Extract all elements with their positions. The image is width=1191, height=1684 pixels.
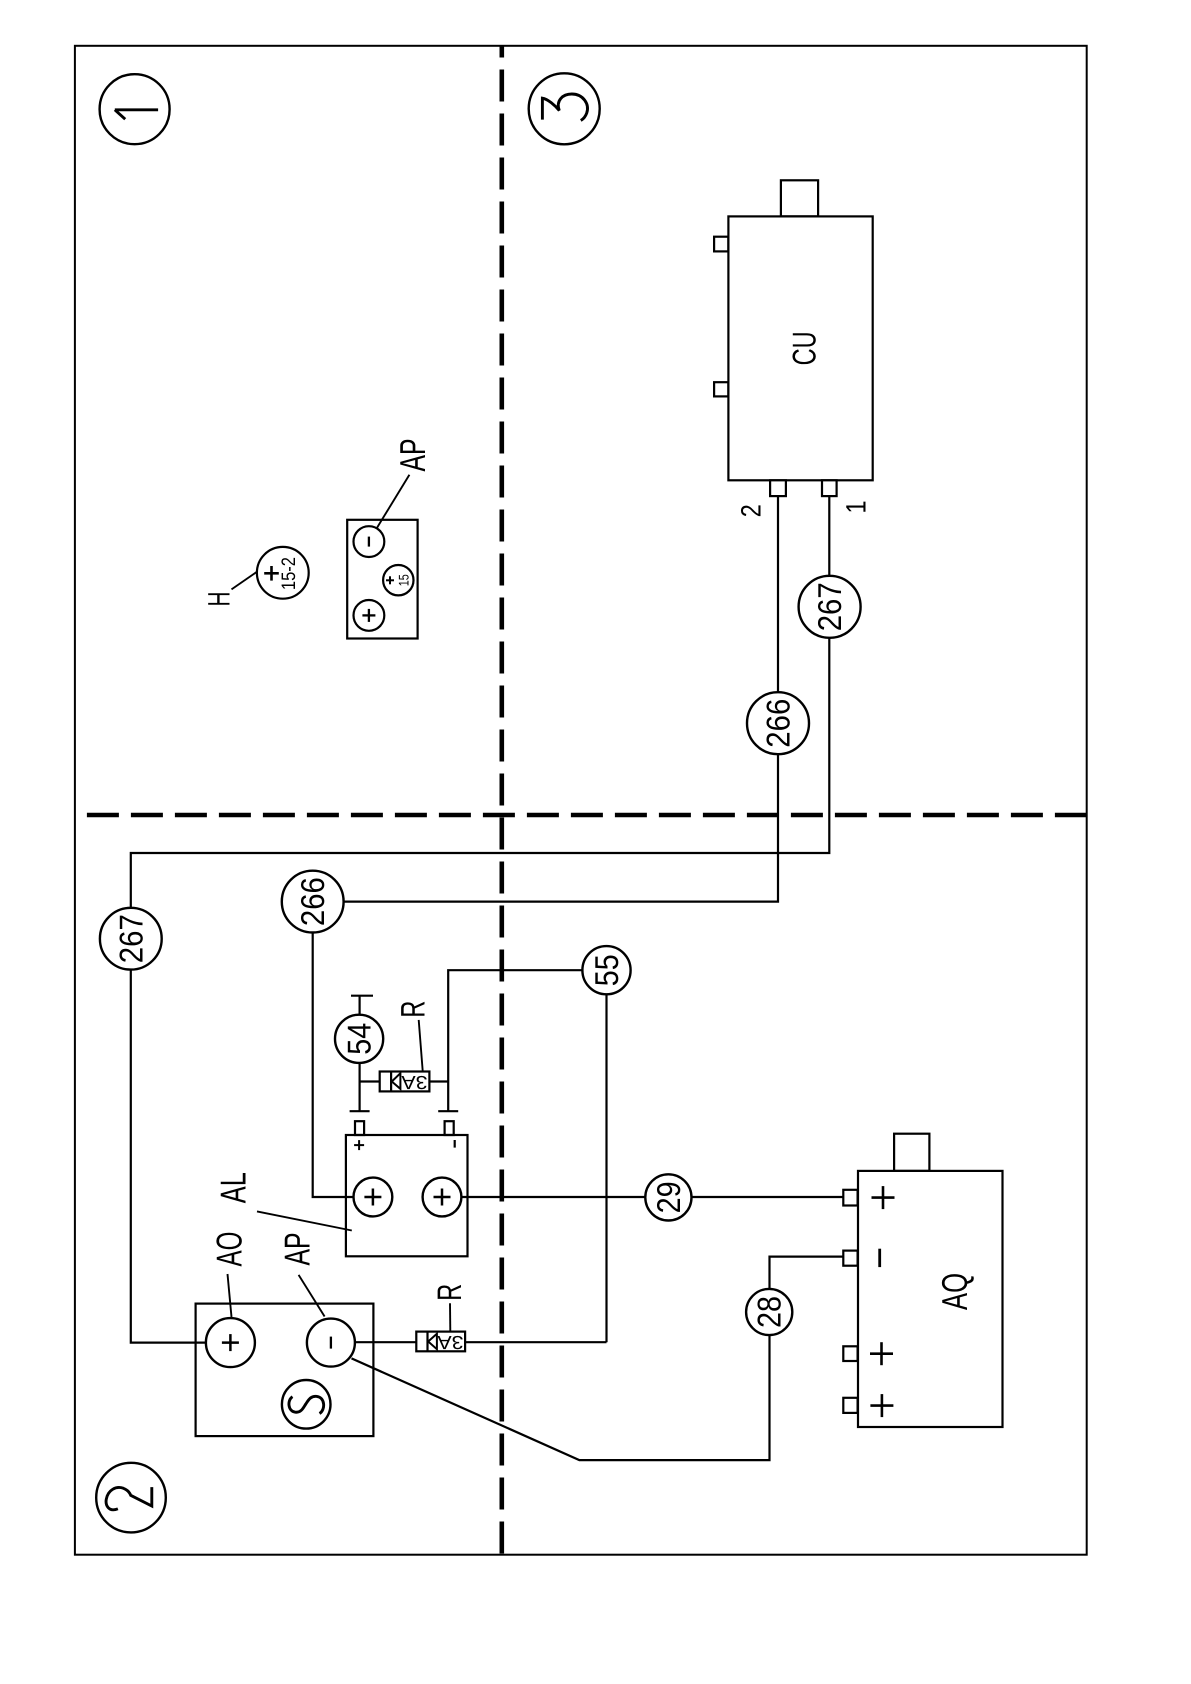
svg-text:1: 1	[841, 501, 872, 514]
AQ terminal sign - (pin 2, rotated)	[878, 1249, 881, 1267]
AQ terminal sign + (pin 3)	[870, 1352, 893, 1355]
svg-text:3A: 3A	[437, 1331, 463, 1352]
label AP (S box) leader line	[299, 1275, 325, 1317]
S symbol circle	[282, 1380, 331, 1429]
S box - terminal (AP)	[307, 1319, 355, 1367]
AQ terminal sign + (pin 4)	[870, 1404, 893, 1407]
svg-text:R: R	[431, 1284, 469, 1301]
zone label 1	[100, 74, 170, 144]
wire 266: CU pin2 down, left to junction circle, down, right to AL + terminal	[313, 496, 778, 1197]
zone divider dashed horizontal line	[75, 813, 1087, 818]
AL left + terminal circle	[354, 1178, 393, 1217]
AP terminal minus circle	[354, 526, 385, 557]
battery AQ	[843, 1134, 1002, 1427]
svg-text:28: 28	[751, 1296, 788, 1328]
battery AL	[346, 1121, 468, 1256]
label R (lower fuse) leader line	[449, 1303, 451, 1331]
wire label 266 (left junction circle)	[282, 871, 344, 933]
label AP leader line	[377, 475, 410, 529]
wire from S box - terminal to lower fuse and 55 wire	[355, 1341, 607, 1343]
AL plus sign (top-left)	[354, 1144, 364, 1146]
AP terminal plus circle	[354, 600, 385, 631]
label AL leader line	[257, 1211, 352, 1230]
svg-text:29: 29	[650, 1181, 687, 1213]
AP terminal +15 circle	[383, 565, 413, 595]
wire label 266 (upper, on CU pin2 wire)	[747, 692, 809, 754]
wire label 267 (upper, on CU pin1 wire)	[799, 576, 861, 638]
wire 29: AL right + to AQ + terminal	[461, 1196, 843, 1198]
label H leader line	[232, 572, 257, 590]
svg-text:266: 266	[760, 699, 797, 748]
wire label 55	[582, 946, 630, 994]
zone label 3	[529, 73, 600, 144]
fuse R 3A (upper) lead wire	[360, 1080, 449, 1082]
fuse R 3A (upper)	[380, 1071, 430, 1092]
AQ terminal sign + (pin 1)	[872, 1196, 895, 1199]
svg-text:AL: AL	[213, 1172, 254, 1203]
svg-text:H: H	[202, 592, 237, 607]
svg-text:55: 55	[588, 954, 625, 986]
S box + terminal (AO)	[206, 1318, 255, 1367]
control unit CU	[714, 180, 873, 496]
svg-text:AP: AP	[277, 1233, 318, 1266]
zone divider dashed vertical line	[499, 46, 504, 1555]
wire 267: CU pin1 down, left, down to S box + terminal	[131, 496, 830, 1343]
drawing frame border	[75, 46, 1087, 1555]
zone label 2	[96, 1463, 166, 1533]
AL right + terminal circle	[423, 1178, 462, 1217]
svg-text:267: 267	[811, 582, 848, 631]
wire 55: vertical + horizontal to label circle, down to lower fuse wire	[448, 970, 606, 1342]
svg-text:AQ: AQ	[934, 1273, 975, 1310]
wire label 54	[335, 1015, 383, 1063]
AL minus sign (top-right, rotated)	[454, 1140, 456, 1148]
label R (upper fuse) leader line	[419, 1020, 423, 1071]
wire label 267 (left, on vertical wire)	[100, 908, 162, 970]
switch S box	[196, 1304, 374, 1437]
svg-text:AP: AP	[392, 439, 433, 472]
wire label 29	[645, 1174, 691, 1220]
svg-text:15: 15	[396, 574, 412, 586]
svg-text:2: 2	[735, 504, 766, 517]
svg-text:266: 266	[294, 877, 331, 926]
connector AP (upper component box)	[347, 520, 417, 639]
svg-text:R: R	[394, 1001, 432, 1018]
wire 28: S box - terminal diagonal to AQ - terminal	[352, 1257, 844, 1461]
wire 54: vertical with end ticks	[359, 996, 361, 1111]
svg-text:267: 267	[112, 914, 149, 963]
svg-text:15-2: 15-2	[278, 557, 300, 590]
svg-text:CU: CU	[786, 331, 823, 365]
svg-text:54: 54	[341, 1023, 378, 1055]
svg-text:3A: 3A	[401, 1071, 427, 1092]
node H circle +15-2	[257, 547, 309, 599]
fuse R 3A (lower)	[416, 1331, 465, 1352]
label AO leader line	[228, 1274, 232, 1317]
svg-text:AO: AO	[209, 1232, 250, 1267]
wire label 28	[746, 1289, 792, 1335]
